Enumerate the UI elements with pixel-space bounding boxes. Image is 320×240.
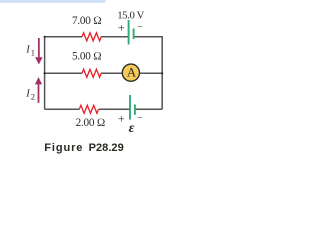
svg-text:7.00 Ω: 7.00 Ω (72, 15, 101, 27)
svg-text:−: − (137, 113, 143, 124)
resistor R 5.00 ohm (82, 69, 101, 77)
wire middle: resistor to ammeter (101, 72, 123, 74)
svg-text:2: 2 (31, 93, 35, 102)
svg-text:P28.29: P28.29 (89, 142, 124, 154)
svg-text:I: I (25, 45, 30, 56)
node left-middle junction (44, 72, 46, 74)
battery emf short plate (134, 105, 136, 115)
svg-text:Figure: Figure (44, 142, 83, 154)
battery emf long plate (129, 95, 131, 120)
svg-text:A: A (127, 65, 137, 80)
wire top: resistor to battery long plate (101, 36, 129, 38)
svg-text:1: 1 (31, 49, 35, 58)
svg-text:I: I (25, 89, 30, 100)
wire left vertical (44, 37, 46, 110)
current arrow I1 (down) (35, 38, 43, 65)
wire top left: corner to 7ohm resistor (45, 36, 82, 38)
node right-middle junction (161, 72, 163, 74)
wire bottom left: corner to 2ohm resistor (45, 108, 80, 110)
ammeter A (122, 64, 139, 81)
svg-text:ε: ε (129, 121, 135, 136)
svg-text:−: − (137, 22, 143, 33)
svg-text:+: + (118, 21, 125, 35)
svg-text:2.00 Ω: 2.00 Ω (76, 117, 105, 129)
svg-text:+: + (118, 111, 125, 125)
resistor R 2.00 ohm (79, 105, 98, 113)
node top-left corner (44, 36, 46, 38)
svg-text:5.00 Ω: 5.00 Ω (72, 51, 101, 63)
wire bottom: resistor to emf battery (99, 108, 130, 110)
battery 15.0 V long plate (128, 20, 130, 45)
wire middle: ammeter to right junction (140, 72, 163, 74)
resistor R 7.00 ohm (82, 33, 101, 41)
wire top right: short plate to corner, down right side (134, 37, 163, 110)
wire bottom right: short plate to corner (135, 108, 162, 110)
battery 15.0 V short plate (133, 29, 135, 40)
wire middle left: junction to 5ohm resistor (45, 72, 82, 74)
decorative top blue bar (0, 0, 106, 3)
current arrow I2 (up) (35, 77, 42, 103)
